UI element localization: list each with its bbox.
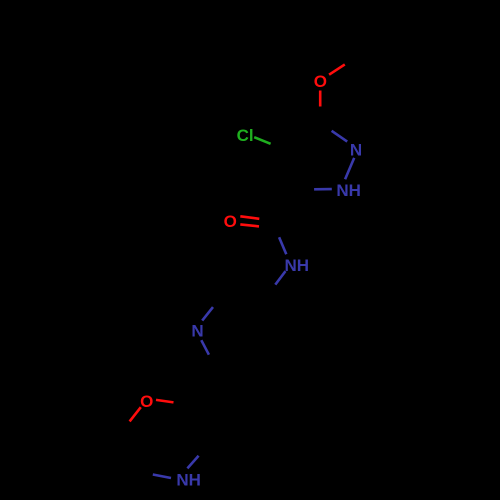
bond N-CH2 amine lower (N half) <box>201 340 209 355</box>
bond O-CH3 (methoxy, O half) <box>329 64 345 74</box>
svg-text:NH: NH <box>176 470 201 489</box>
svg-text:Cl: Cl <box>237 126 254 145</box>
svg-text:O: O <box>314 72 327 91</box>
bond O-C5 (methoxy to pyrazole, O half) <box>319 91 322 107</box>
bond C3-N1 (N half) <box>314 188 332 191</box>
bond C=O carbonyl lower line (O half) <box>240 224 259 226</box>
bond Cl-C4 (Cl half) <box>254 137 270 144</box>
bond CH2-N morpholine left (N half) <box>153 475 171 479</box>
bond O-CH2 morpholine lower-left (O half) <box>130 407 141 421</box>
svg-text:N: N <box>350 140 362 159</box>
bond N2-N1 (full) <box>345 158 354 179</box>
svg-text:N: N <box>191 322 203 341</box>
bond C=O carbonyl upper line (O half) <box>240 216 259 219</box>
bond C-N amine upper (N half) <box>202 307 213 321</box>
bond N-CH2 amide (N half) <box>275 271 285 285</box>
bond O-C morpholine right (O half) <box>156 400 174 403</box>
bond N-C morpholine upper-right (N half) <box>187 456 198 469</box>
svg-text:O: O <box>140 392 153 411</box>
svg-text:NH: NH <box>336 181 361 200</box>
svg-text:O: O <box>224 212 237 231</box>
bond C5=N2 (N half) <box>332 131 348 142</box>
svg-text:NH: NH <box>285 256 310 275</box>
bond C(=O)-N amide (N half) <box>279 237 286 254</box>
